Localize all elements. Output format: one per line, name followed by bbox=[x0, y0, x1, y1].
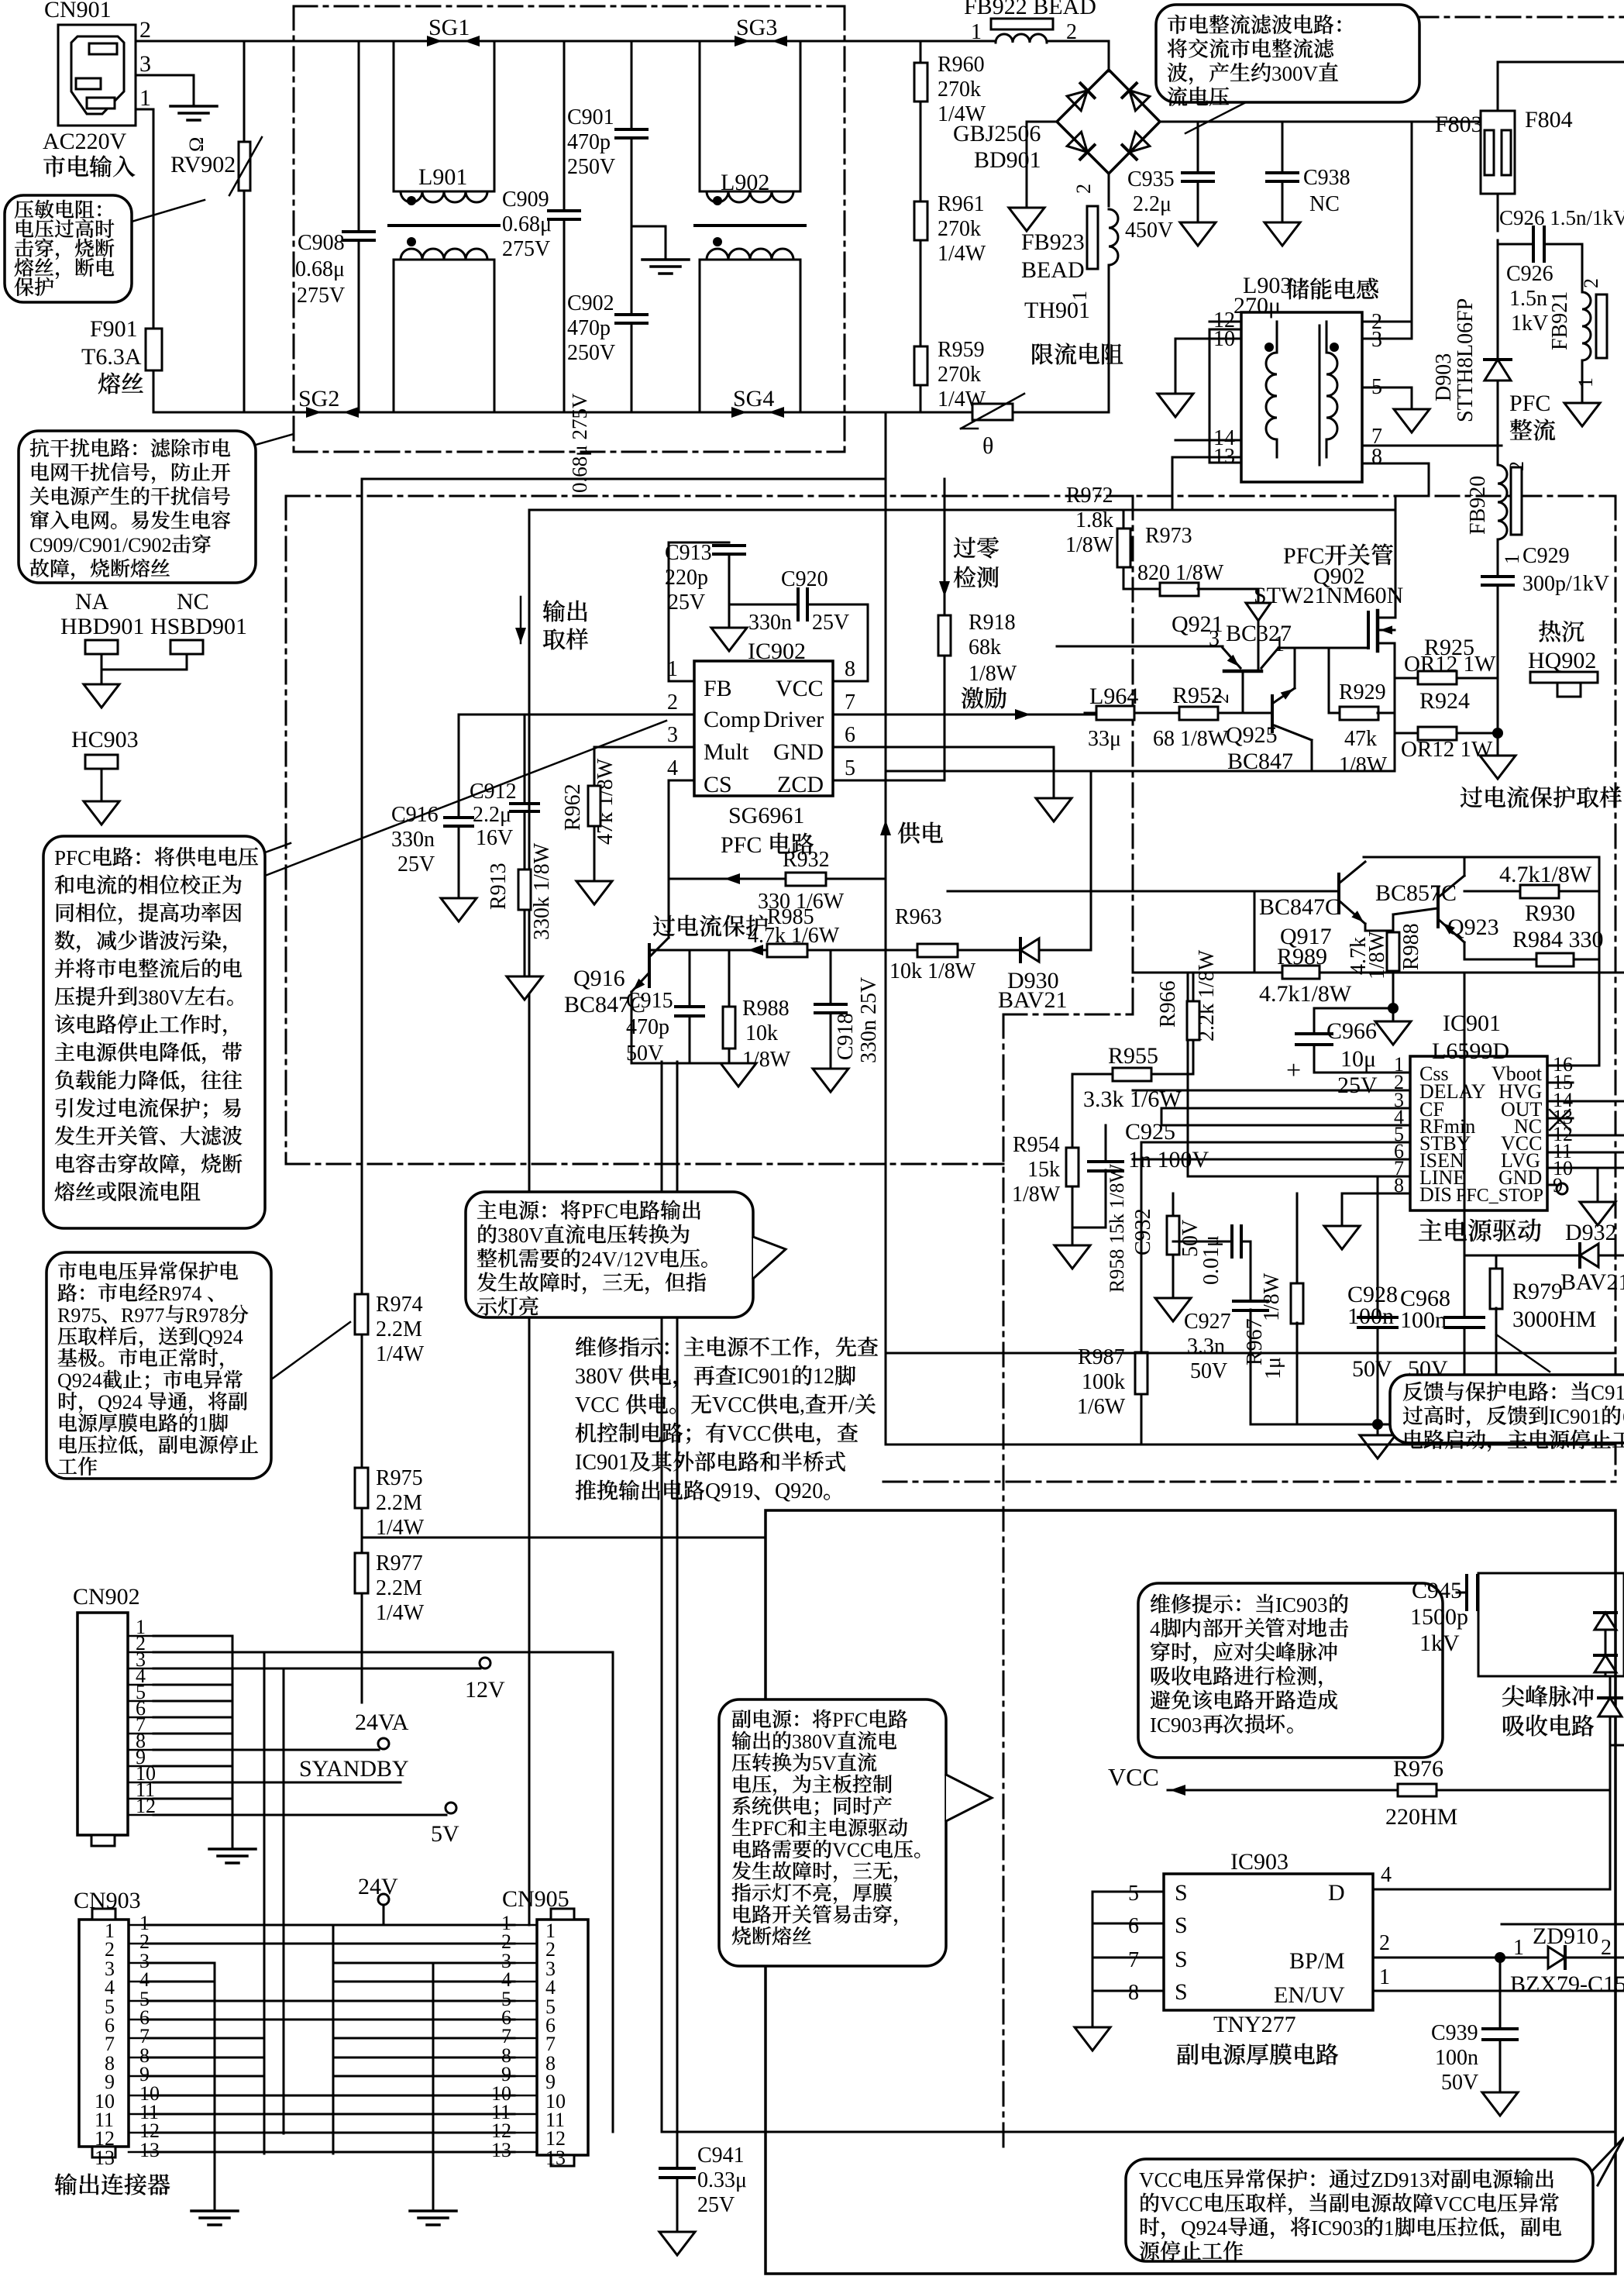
svg-text:ZD913: ZD913 bbox=[1371, 2168, 1430, 2192]
choke L902 bbox=[700, 41, 800, 191]
svg-text:4.7k1/8W: 4.7k1/8W bbox=[1259, 981, 1352, 1007]
wire R989 bus bbox=[1133, 972, 1282, 974]
resistor R967 label rotated bbox=[1243, 1318, 1267, 1365]
bridge diode 4 bbox=[1122, 132, 1149, 159]
wire ladder row 3 right bbox=[333, 1962, 514, 1964]
svg-text:VCC: VCC bbox=[712, 1393, 757, 1417]
wire sample branch bbox=[362, 1537, 766, 2274]
svg-text:33μ: 33μ bbox=[1088, 727, 1121, 751]
wire bridge plus bbox=[1160, 121, 1481, 123]
svg-text:θ: θ bbox=[982, 433, 993, 459]
transistor Q923 bbox=[1436, 888, 1440, 927]
svg-text:FB: FB bbox=[704, 676, 732, 701]
ground IC902 bbox=[1036, 798, 1072, 821]
svg-text:IC901: IC901 bbox=[1443, 1011, 1501, 1036]
resistor R960 bbox=[914, 63, 927, 102]
svg-text:330k 1/8W: 330k 1/8W bbox=[530, 842, 554, 940]
svg-text:6: 6 bbox=[845, 723, 855, 747]
resistor R962 bbox=[594, 747, 596, 787]
svg-text:2.2M: 2.2M bbox=[376, 1576, 422, 1600]
leader line EMI callout bbox=[256, 434, 294, 445]
leader VCC callout bbox=[1593, 2137, 1624, 2185]
wire R932 bbox=[669, 878, 788, 880]
svg-text:S: S bbox=[1175, 1979, 1188, 2005]
svg-text:Q925: Q925 bbox=[1226, 722, 1278, 748]
capacitor C912 bbox=[524, 715, 526, 804]
ground R988 bbox=[1392, 1008, 1395, 1021]
svg-text:3.3n: 3.3n bbox=[1187, 1334, 1225, 1358]
resistor R973 bbox=[1123, 588, 1161, 591]
svg-text:1500p: 1500p bbox=[1410, 1604, 1468, 1630]
capacitor C918 bbox=[830, 950, 832, 1004]
svg-text:1kV: 1kV bbox=[1419, 1630, 1460, 1656]
svg-text:R975: R975 bbox=[57, 1304, 101, 1327]
svg-text:R979: R979 bbox=[1512, 1279, 1563, 1304]
resistor R966 label rotated bbox=[1156, 980, 1180, 1028]
svg-text:2: 2 bbox=[667, 690, 678, 715]
svg-text:Driver: Driver bbox=[763, 707, 824, 732]
ground IC901 right bbox=[1597, 1168, 1599, 1202]
resistor R913 label rotated bbox=[487, 863, 511, 910]
svg-text:4: 4 bbox=[1150, 1617, 1161, 1641]
wire feedback bus bbox=[886, 1352, 1615, 1355]
wire Q925 emitter up bbox=[1294, 648, 1296, 688]
svg-text:3: 3 bbox=[667, 723, 678, 747]
resistor R962 label rotated bbox=[561, 783, 585, 831]
label 副电源厚膜电路 bbox=[1177, 2044, 1198, 2064]
wire box bottom bbox=[886, 1444, 1615, 1446]
svg-text:300V: 300V bbox=[1271, 62, 1319, 85]
label 激励 bbox=[962, 687, 984, 709]
svg-text:25V: 25V bbox=[697, 2193, 735, 2217]
svg-text:16V: 16V bbox=[476, 826, 513, 850]
svg-text:380V: 380V bbox=[497, 1224, 545, 1247]
capacitor C902 bbox=[631, 226, 633, 315]
label 尖峰脉冲吸收电路 bbox=[1502, 1686, 1524, 1707]
ground sense bbox=[1480, 756, 1516, 779]
connector CN905 bbox=[537, 1920, 588, 2155]
L903 pin frame left bbox=[1209, 329, 1241, 463]
svg-text:C910: C910 bbox=[1591, 1381, 1624, 1404]
wire R960-R961 bbox=[920, 102, 922, 203]
svg-text:DIS: DIS bbox=[1419, 1183, 1452, 1206]
svg-text:12V: 12V bbox=[465, 1677, 505, 1703]
svg-text:BAV21: BAV21 bbox=[998, 987, 1067, 1013]
svg-text:2.2μ: 2.2μ bbox=[1133, 192, 1172, 216]
resistor R963 bbox=[917, 944, 958, 957]
svg-text:PFC: PFC bbox=[1509, 391, 1550, 416]
svg-text:S: S bbox=[1175, 1947, 1188, 1972]
wire CN902 pin9 bbox=[153, 1765, 232, 1768]
svg-text:C913: C913 bbox=[665, 541, 712, 565]
wire ladder row 9 right bbox=[333, 2075, 514, 2078]
resistor R959 bbox=[914, 346, 927, 385]
svg-text:VCC: VCC bbox=[1139, 2168, 1182, 2192]
wire bus e bbox=[432, 1963, 435, 2209]
wire bus to TH901 bbox=[972, 411, 1013, 414]
svg-text:PFC: PFC bbox=[581, 1200, 618, 1223]
bead FB921 bbox=[1581, 244, 1584, 292]
leader feedback bbox=[1496, 1334, 1550, 1372]
wire CN902 pin6 bbox=[153, 1717, 232, 1719]
wire D903 node down bbox=[1497, 446, 1499, 465]
svg-text:BD901: BD901 bbox=[974, 147, 1041, 173]
wire bus d bbox=[332, 1925, 335, 2154]
svg-text:1/8W: 1/8W bbox=[1065, 533, 1114, 557]
svg-text:,: , bbox=[800, 1393, 805, 1417]
svg-text:NA: NA bbox=[75, 589, 109, 615]
svg-text:CS: CS bbox=[704, 772, 732, 797]
svg-text:100k: 100k bbox=[1082, 1370, 1125, 1394]
svg-text:C938: C938 bbox=[1303, 166, 1350, 190]
dash-dot main bottom bbox=[883, 1481, 1615, 1483]
svg-text:275V: 275V bbox=[297, 284, 345, 308]
wire D930 right up bbox=[1039, 771, 1091, 950]
wire supply VCC line bbox=[885, 479, 887, 1445]
svg-text:SG6961: SG6961 bbox=[728, 803, 804, 828]
leader subpower callout bbox=[946, 1775, 992, 1821]
resistor R988 label rotated bbox=[1347, 937, 1371, 975]
wire HBD901 gnd bbox=[101, 654, 103, 684]
connector CN902 bbox=[77, 1613, 128, 1835]
terminal 5V bbox=[153, 1814, 446, 1816]
wire 380V down b bbox=[676, 1062, 679, 2168]
wire IC901 pin2 bbox=[1133, 1090, 1410, 1092]
resistor R958 bbox=[1172, 1193, 1175, 1216]
svg-text:2: 2 bbox=[1601, 1936, 1612, 1960]
svg-text:NC: NC bbox=[177, 589, 209, 615]
svg-text:C915: C915 bbox=[626, 989, 673, 1013]
svg-text:50V: 50V bbox=[1190, 1359, 1227, 1383]
svg-text:1: 1 bbox=[1379, 1965, 1390, 1989]
ground C918 bbox=[813, 1069, 848, 1092]
wire IC901 pin15 bbox=[1547, 1082, 1573, 1084]
svg-text:R984 330: R984 330 bbox=[1512, 927, 1604, 952]
leader line rectifier callout bbox=[1185, 102, 1246, 133]
svg-text:R913: R913 bbox=[487, 863, 511, 910]
svg-text:C918: C918 bbox=[834, 1013, 858, 1060]
diode snubber bbox=[1609, 1676, 1612, 1696]
wire Q923 emitter up bbox=[1464, 857, 1466, 876]
resistor R952 bbox=[1179, 707, 1218, 720]
svg-text:100n: 100n bbox=[1400, 1307, 1447, 1333]
thermistor TH901 bbox=[972, 404, 1013, 420]
wire C901 C902 mid ground bbox=[631, 226, 666, 259]
callout PFC电路 bbox=[43, 836, 265, 1228]
arrow drive bbox=[1015, 709, 1030, 720]
wire mains sample bbox=[361, 479, 363, 1295]
svg-text:R963: R963 bbox=[895, 905, 942, 929]
capacitor C929 bbox=[1482, 575, 1513, 578]
leader mains callout bbox=[271, 1322, 350, 1379]
svg-text:C929: C929 bbox=[1522, 544, 1570, 568]
svg-text:8: 8 bbox=[1371, 445, 1382, 469]
earth ground e bbox=[410, 2209, 456, 2212]
svg-text:R972: R972 bbox=[1066, 484, 1113, 508]
svg-text:450V: 450V bbox=[1125, 219, 1173, 243]
connector CN903 bbox=[79, 1920, 129, 2147]
svg-text:C909: C909 bbox=[502, 188, 549, 212]
callout 市电电压异常保护 bbox=[46, 1252, 271, 1479]
svg-text:VCC: VCC bbox=[1108, 1763, 1159, 1791]
svg-text:10k 1/8W: 10k 1/8W bbox=[889, 959, 976, 983]
svg-text:SG4: SG4 bbox=[733, 386, 774, 411]
svg-text:3000HM: 3000HM bbox=[1512, 1307, 1596, 1332]
wire R974-R975 bbox=[361, 1334, 363, 1469]
svg-text:C941: C941 bbox=[697, 2144, 745, 2168]
svg-text:VCC: VCC bbox=[832, 1839, 873, 1861]
svg-text:FB921: FB921 bbox=[1548, 291, 1572, 350]
wire Q917 emitter bbox=[1364, 924, 1367, 931]
transformer L903 box bbox=[1241, 312, 1362, 482]
wire ladder row 1 bbox=[147, 1924, 514, 1927]
svg-text:12: 12 bbox=[813, 1365, 834, 1389]
svg-text:250V: 250V bbox=[567, 341, 615, 365]
connector HBD901 bbox=[85, 640, 118, 654]
svg-text:HQ902: HQ902 bbox=[1528, 648, 1596, 673]
wire C925 R954 join bbox=[1072, 1227, 1106, 1229]
resistor R925 bbox=[1395, 677, 1418, 680]
svg-text:BAV21: BAV21 bbox=[1560, 1269, 1624, 1295]
capacitor C928 bbox=[1377, 1176, 1379, 1317]
wire fuse bottom bbox=[1497, 194, 1499, 231]
dash-dot vertical mid bbox=[1132, 496, 1134, 1014]
wire IC901 pin4 bbox=[1161, 1124, 1410, 1127]
svg-text:D: D bbox=[1328, 1880, 1345, 1906]
wire CN902 pin7 bbox=[153, 1733, 232, 1735]
text 维修指示 bbox=[576, 1337, 596, 1357]
wire CN902 pin5 bbox=[153, 1700, 232, 1703]
wire IC901 pin7 bbox=[1188, 1176, 1410, 1178]
junction R988 gnd bbox=[1388, 1003, 1399, 1014]
svg-text:S: S bbox=[1175, 1913, 1188, 1938]
svg-text:C902: C902 bbox=[567, 291, 614, 315]
snubber box bbox=[1478, 1573, 1624, 1676]
wire snubber out bbox=[1612, 1744, 1624, 1747]
svg-text:1/8W: 1/8W bbox=[1339, 753, 1388, 777]
ground HC903 bbox=[84, 801, 119, 825]
ground IC903 bbox=[1075, 2027, 1110, 2051]
svg-text:330n 25V: 330n 25V bbox=[857, 977, 881, 1063]
resistor R974 bbox=[355, 1294, 368, 1334]
svg-text:1: 1 bbox=[1513, 1936, 1524, 1960]
svg-text:VCC: VCC bbox=[776, 676, 824, 701]
svg-text:250V: 250V bbox=[567, 155, 615, 179]
wire collector rail bbox=[1364, 856, 1599, 859]
earth ground a bbox=[191, 2209, 238, 2212]
svg-text:1/4W: 1/4W bbox=[376, 1516, 425, 1540]
wire ladder row 11 bbox=[147, 2113, 514, 2116]
svg-text:1/4W: 1/4W bbox=[376, 1342, 425, 1366]
mosfet Q902 bbox=[1367, 612, 1370, 648]
wire C913 top bbox=[669, 542, 729, 544]
wire CN902 pin4 bbox=[153, 1684, 232, 1686]
ground C916 bbox=[441, 898, 477, 921]
wire zero cross detect bbox=[944, 479, 946, 780]
svg-text:2.2μ: 2.2μ bbox=[473, 803, 511, 827]
vert from base wire bbox=[1254, 891, 1256, 973]
capacitor C932 bbox=[1173, 1241, 1232, 1243]
resistor R984 bbox=[1464, 959, 1536, 961]
capacitor C935 bbox=[1197, 122, 1199, 173]
bead FB920 label rotated bbox=[1466, 476, 1490, 535]
svg-text:1.5n: 1.5n bbox=[1509, 287, 1547, 311]
wire R959 to bus bbox=[920, 385, 922, 412]
choke L901 bbox=[394, 41, 494, 191]
svg-text:24VA: 24VA bbox=[355, 1710, 409, 1735]
wire Q923 collector down bbox=[1464, 942, 1466, 959]
svg-text:R966: R966 bbox=[1156, 980, 1180, 1028]
svg-text:/: / bbox=[848, 1393, 855, 1417]
wire Q925 collector down bbox=[1311, 740, 1313, 771]
wire F804 top bbox=[1498, 62, 1624, 111]
dash-dot top right segment bbox=[1168, 16, 1624, 19]
wire ladder row 9 left bbox=[147, 2075, 264, 2078]
wire gate resistor bbox=[1328, 648, 1330, 713]
wire sense node bbox=[1497, 678, 1499, 756]
wire bus a bbox=[214, 1963, 216, 2209]
capacitor C968 bbox=[1464, 973, 1466, 1317]
capacitor C909 bbox=[563, 41, 566, 211]
capacitor C932 label rotated bbox=[1131, 1208, 1155, 1255]
svg-text:R975: R975 bbox=[376, 1466, 423, 1490]
wire bus c bbox=[283, 1670, 285, 2133]
svg-text:1μ: 1μ bbox=[1261, 1357, 1285, 1379]
diode snubber box 1 bbox=[1595, 1613, 1616, 1630]
svg-text:300p/1kV: 300p/1kV bbox=[1522, 572, 1609, 596]
svg-text:FB920: FB920 bbox=[1466, 476, 1490, 535]
varistor RV902 bbox=[239, 142, 250, 191]
svg-text:R918: R918 bbox=[969, 611, 1016, 635]
wire bottom bus bbox=[662, 2131, 1615, 2133]
ground R962 bbox=[576, 881, 612, 904]
callout 维修提示 bbox=[1138, 1583, 1443, 1758]
wire Q921 base down bbox=[1242, 671, 1244, 713]
wire IC901 pin11 bbox=[1547, 1152, 1624, 1154]
svg-text:13: 13 bbox=[139, 2139, 160, 2161]
svg-text:BZX79-C15: BZX79-C15 bbox=[1510, 1971, 1624, 1997]
capacitor C938 bbox=[1282, 122, 1284, 173]
svg-text:1.8k: 1.8k bbox=[1075, 508, 1113, 532]
svg-text:1/8W: 1/8W bbox=[1260, 1272, 1284, 1321]
svg-text:IC901: IC901 bbox=[575, 1451, 629, 1475]
connector HC903 bbox=[85, 755, 118, 769]
ground C935 bbox=[1180, 222, 1216, 246]
svg-text:380V: 380V bbox=[575, 1365, 623, 1389]
wire FB left bbox=[669, 542, 694, 681]
resistor R989 bbox=[1282, 966, 1319, 979]
capacitor C927 bbox=[1250, 1241, 1252, 1301]
fuse F803 F804 assembly bbox=[1481, 111, 1515, 194]
diode D903 label rotated bbox=[1432, 353, 1456, 401]
wire Q902 source bbox=[1394, 643, 1396, 771]
wire bus b bbox=[263, 1655, 266, 2154]
wire VCC feed bbox=[1168, 1789, 1610, 1792]
wire CN902 gnd bus bbox=[153, 1635, 232, 1637]
svg-text:Q924: Q924 bbox=[198, 1326, 243, 1348]
svg-text:5: 5 bbox=[845, 756, 855, 780]
capacitor C918 label rotated bbox=[834, 1013, 858, 1060]
wire CN902 pin11 bbox=[153, 1798, 232, 1800]
svg-text:68k: 68k bbox=[969, 635, 1001, 659]
svg-text:C912: C912 bbox=[470, 780, 517, 804]
dash-dot PFC box left bbox=[285, 496, 287, 1164]
resistor R975 bbox=[355, 1468, 368, 1508]
svg-text:25V: 25V bbox=[1337, 1073, 1378, 1098]
EMI filter dash-dot box bbox=[294, 5, 845, 8]
connector HSBD901 bbox=[170, 640, 203, 654]
transistor Q921 bbox=[1258, 620, 1260, 670]
svg-text:HSBD901: HSBD901 bbox=[150, 614, 247, 639]
svg-text:270k: 270k bbox=[938, 217, 981, 241]
capacitor C939 bbox=[1499, 1958, 1502, 2029]
svg-text:5V: 5V bbox=[431, 1821, 459, 1847]
transistor Q921 emitter arrow bbox=[1246, 603, 1271, 621]
callout 主电源 bbox=[466, 1192, 753, 1317]
svg-text:R952: R952 bbox=[1172, 683, 1223, 708]
svg-text:C945: C945 bbox=[1412, 1578, 1462, 1603]
svg-text:Q919: Q919 bbox=[705, 1479, 753, 1503]
callout 副电源 bbox=[719, 1699, 946, 1966]
ground rail main bbox=[1377, 1424, 1379, 1435]
ground C938 bbox=[1264, 222, 1300, 246]
wire R975-R977 bbox=[361, 1508, 363, 1554]
svg-text:50V: 50V bbox=[626, 1042, 663, 1066]
wire R963-D930 bbox=[958, 949, 1018, 952]
svg-text:1: 1 bbox=[667, 657, 678, 681]
wire zd910 frame bbox=[1502, 1923, 1624, 1926]
leader PFC callout bbox=[265, 843, 291, 852]
svg-text:R959: R959 bbox=[938, 338, 985, 362]
svg-text:330n: 330n bbox=[748, 611, 792, 635]
diode D930 bbox=[1020, 938, 1039, 962]
svg-text:R974: R974 bbox=[158, 1283, 201, 1305]
resistor R955 bbox=[1072, 1073, 1113, 1076]
arrow output sample bbox=[520, 597, 522, 643]
svg-text:BEAD: BEAD bbox=[1021, 257, 1085, 283]
svg-text:IC903: IC903 bbox=[1150, 1713, 1203, 1737]
wire ladder row 5 bbox=[147, 2000, 514, 2002]
svg-text:R930: R930 bbox=[1525, 900, 1575, 926]
svg-text:Q920: Q920 bbox=[775, 1479, 823, 1503]
svg-text:220HM: 220HM bbox=[1385, 1804, 1457, 1830]
svg-text:100n: 100n bbox=[1435, 2046, 1478, 2070]
ground pin5 bbox=[1394, 409, 1430, 432]
svg-text:2.2M: 2.2M bbox=[376, 1317, 422, 1341]
svg-text:C932: C932 bbox=[1131, 1208, 1155, 1255]
terminal 24V bbox=[378, 1894, 389, 1905]
svg-text:5: 5 bbox=[1128, 1882, 1139, 1906]
wire VCC rail bbox=[867, 604, 869, 681]
resistor R958 label rotated bbox=[1106, 1163, 1128, 1293]
svg-text:HC903: HC903 bbox=[71, 727, 139, 752]
ground L903 left bbox=[1158, 394, 1193, 417]
wire ladder row 4 left bbox=[147, 1981, 215, 1983]
svg-text:1: 1 bbox=[198, 1413, 208, 1435]
svg-text:L6599D: L6599D bbox=[1432, 1038, 1509, 1064]
bead FB920 bbox=[1498, 465, 1507, 539]
resistor R967 bbox=[1296, 1193, 1299, 1284]
wire ladder row 6 bbox=[147, 2019, 514, 2021]
svg-text:C901: C901 bbox=[567, 105, 614, 129]
ground R954 bbox=[1055, 1245, 1090, 1269]
wire S bus bbox=[1092, 1892, 1094, 2027]
wire HC903 gnd bbox=[101, 769, 103, 801]
bead FB921 label rotated bbox=[1548, 291, 1572, 350]
capacitor C916 bbox=[445, 816, 473, 819]
dash-dot sub box right bbox=[1003, 1014, 1005, 2147]
resistor R918 bbox=[938, 615, 951, 656]
